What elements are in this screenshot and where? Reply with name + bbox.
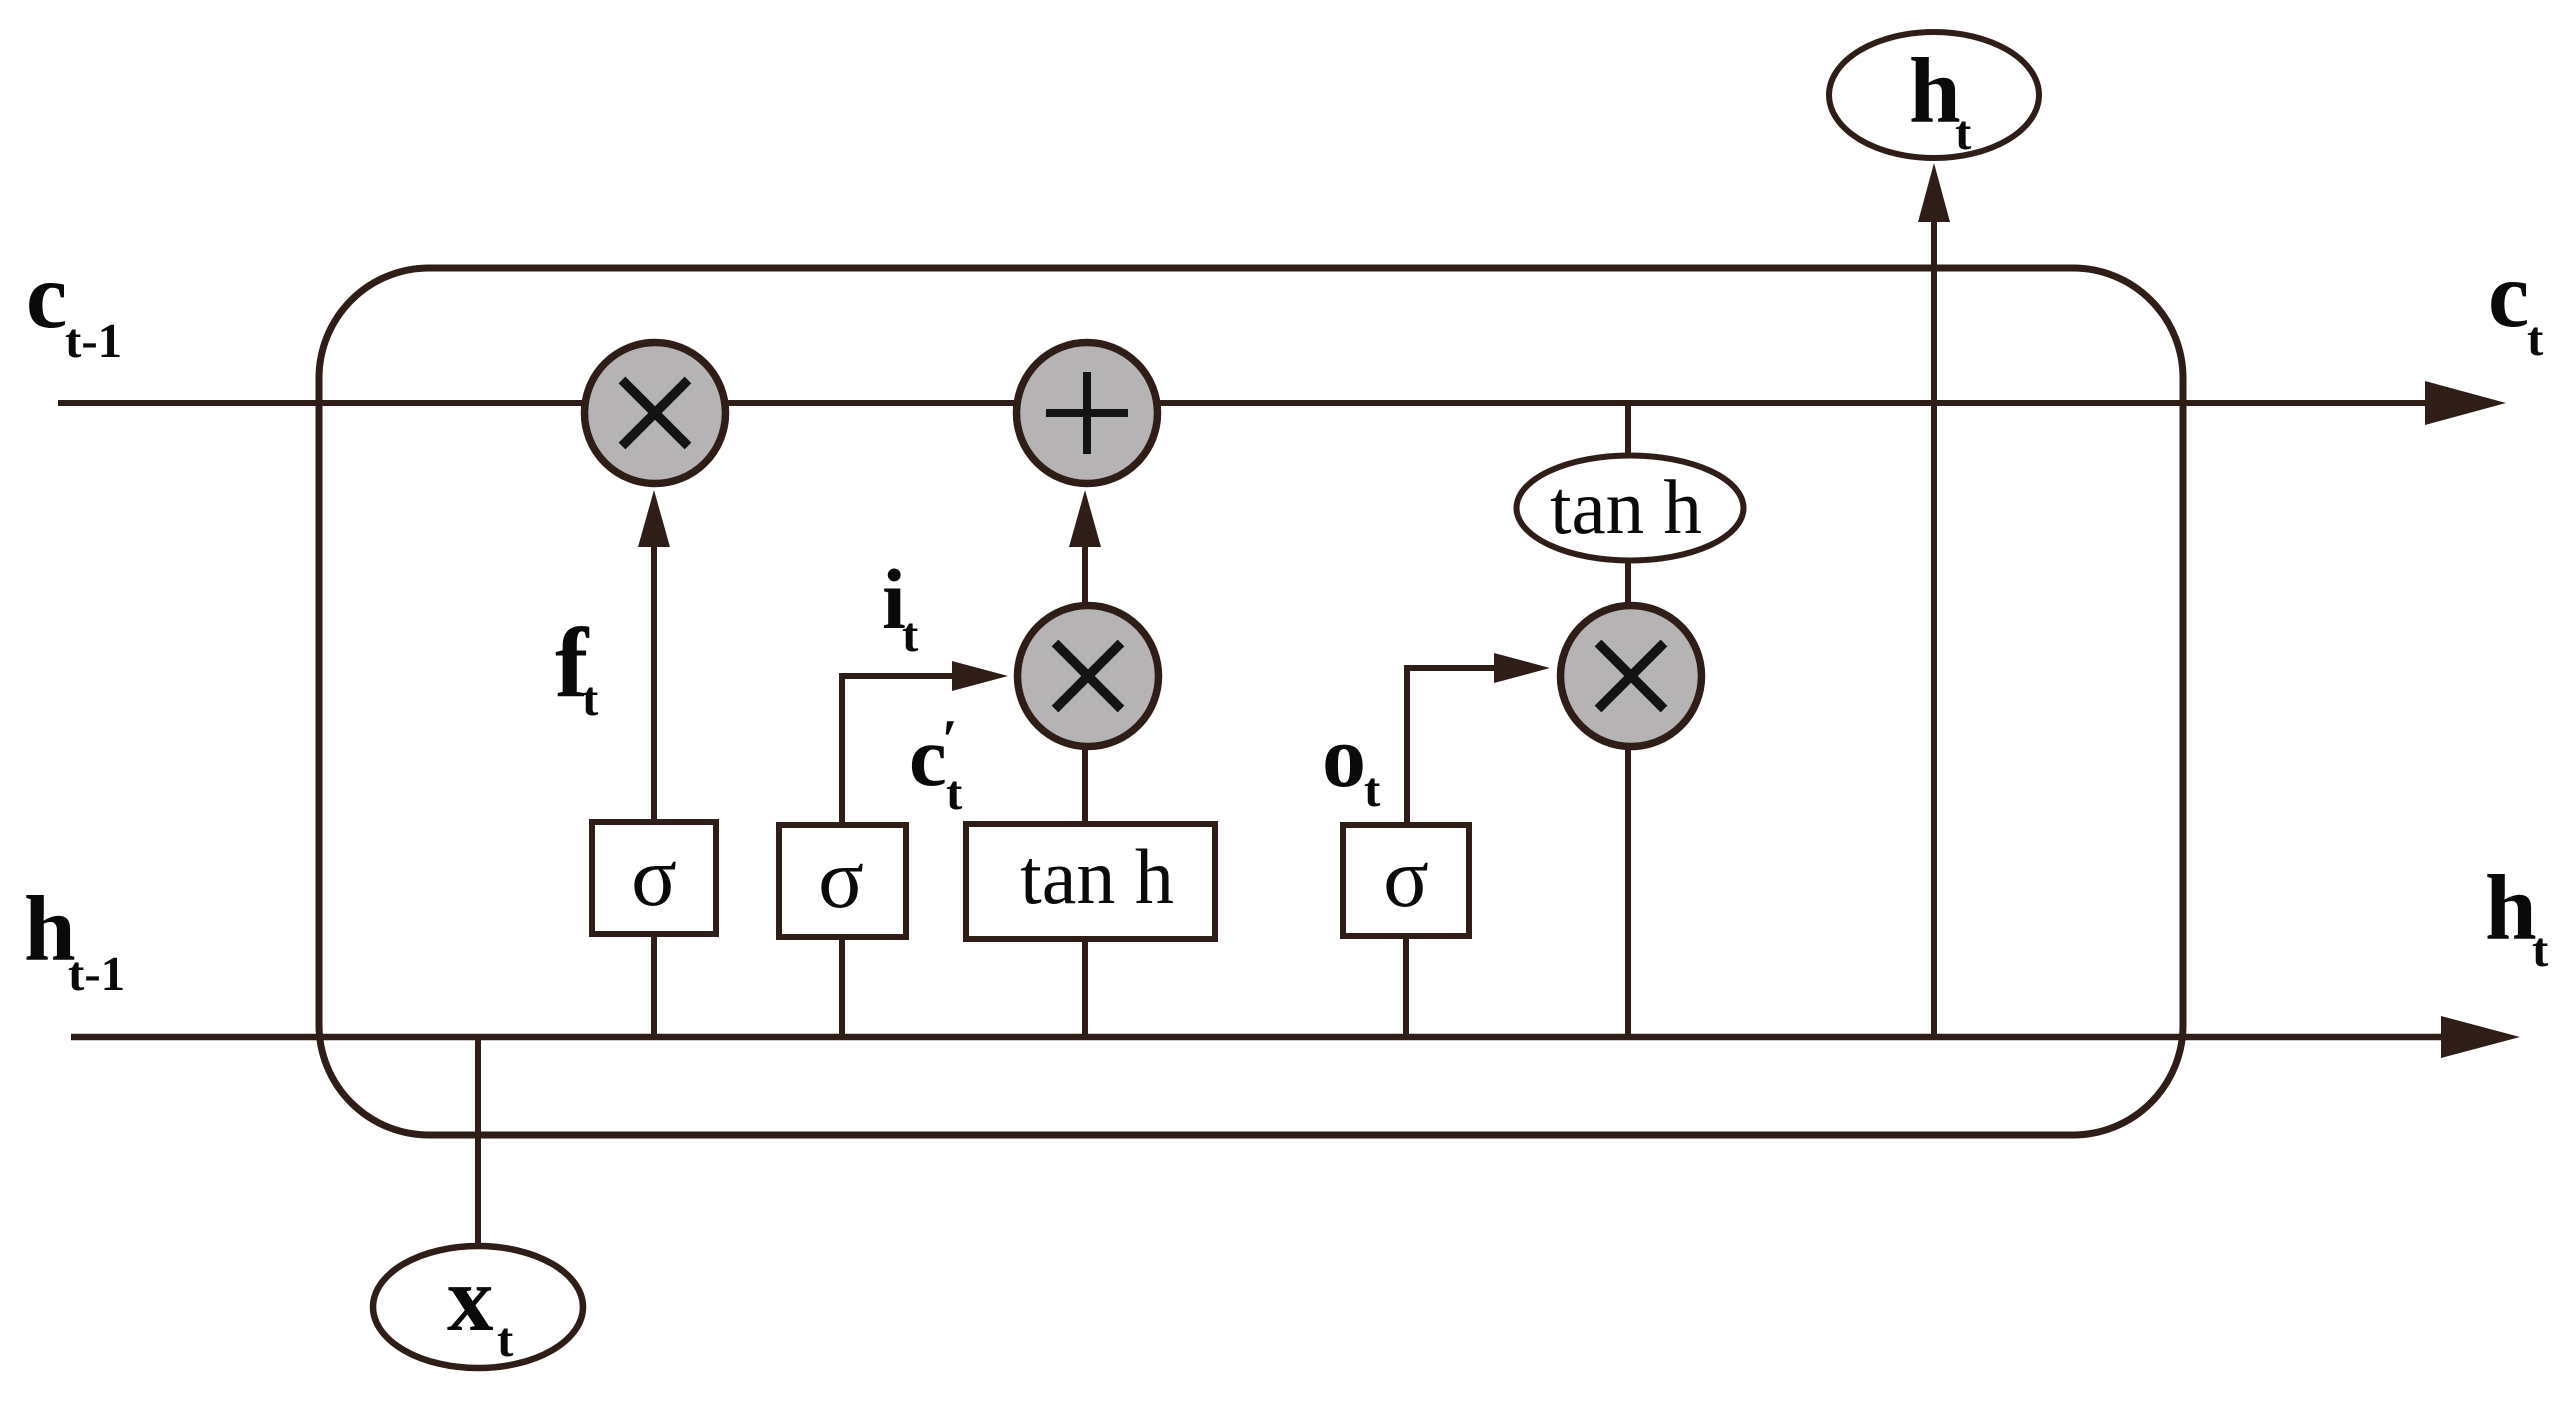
node h_t label (right)	[2485, 857, 2549, 977]
svg-text:t: t	[497, 1312, 514, 1367]
wire: cell state line c (horizontal)	[58, 400, 2430, 406]
svg-text:t: t	[582, 671, 599, 726]
svg-text:tan h: tan h	[1020, 833, 1174, 920]
svg-text:x: x	[447, 1248, 494, 1351]
wire: sigma1 box to h line	[651, 934, 657, 1037]
o_t label	[1322, 709, 1381, 817]
c'_t label	[909, 709, 963, 820]
arrowhead of c line	[2425, 381, 2506, 425]
wire+arrow: o_t path from sigma3 to multiply circle 3	[1407, 668, 1494, 825]
wire+arrow: multiply circle 2 up to plus circle	[1082, 542, 1088, 603]
svg-text:σ: σ	[1383, 831, 1429, 925]
svg-text:t: t	[1955, 105, 1972, 160]
wire: multiply circle 3 down to h line	[1625, 750, 1631, 1037]
svg-text:c: c	[26, 245, 67, 348]
svg-text:t: t	[1364, 762, 1381, 817]
tanh box	[966, 824, 1215, 939]
node h_t-1 label	[24, 878, 125, 1001]
wire+arrow: sigma1 up to multiply circle 1	[651, 542, 657, 822]
svg-text:t: t	[2527, 311, 2544, 366]
svg-text:σ: σ	[818, 832, 864, 926]
svg-text:′: ′	[942, 709, 958, 771]
svg-text:tan h: tan h	[1550, 464, 1702, 550]
wire+arrow: i_t path from sigma2 to multiply circle 2	[842, 676, 952, 825]
h_t output ellipse	[1829, 32, 2039, 158]
LSTM cell boundary rounded rectangle	[319, 268, 2183, 1135]
arrowhead of h line	[2441, 1016, 2520, 1058]
sigma box 2 (input gate)	[779, 825, 906, 937]
svg-text:t-1: t-1	[68, 946, 125, 1001]
svg-text:t: t	[946, 765, 963, 820]
f_t label	[555, 607, 599, 726]
wire+arrow: h_t riser from h line up to h_t ellipse	[1931, 218, 1937, 1037]
svg-text:t-1: t-1	[65, 313, 122, 368]
multiply circle 1 (forget gate product)	[585, 343, 726, 484]
sigma box 1 (forget gate)	[592, 822, 716, 934]
node c_t-1 label	[26, 245, 122, 368]
wire: tanh box to h line	[1082, 939, 1088, 1037]
svg-text:t: t	[2532, 922, 2549, 977]
multiply circle 2 (input product)	[1018, 606, 1159, 747]
svg-text:o: o	[1322, 709, 1366, 806]
x_t input ellipse	[373, 1246, 583, 1368]
svg-text:h: h	[2485, 857, 2537, 960]
i_t label	[882, 551, 919, 662]
wire: multiply circle 2 down to tanh box	[1082, 750, 1088, 824]
tanh ellipse	[1517, 456, 1744, 561]
wire: x_t riser from h line down to x_t ellipse	[475, 1037, 481, 1245]
svg-text:c: c	[2488, 244, 2529, 347]
wire: hidden state line h (horizontal)	[71, 1034, 2445, 1041]
wire: sigma3 box to h line	[1403, 936, 1409, 1037]
svg-text:h: h	[1909, 40, 1961, 143]
svg-text:σ: σ	[631, 830, 677, 924]
wire: tanh ellipse down to multiply circle 3	[1625, 563, 1631, 604]
wire: sigma2 box to h line	[839, 937, 845, 1037]
multiply circle 3 (output product)	[1561, 606, 1702, 747]
wire: tanh ellipse up to c line	[1625, 403, 1631, 455]
node c_t label	[2488, 244, 2544, 366]
sigma box 3 (output gate)	[1343, 825, 1469, 936]
plus circle (cell state sum)	[1017, 343, 1158, 484]
svg-text:t: t	[902, 607, 919, 662]
